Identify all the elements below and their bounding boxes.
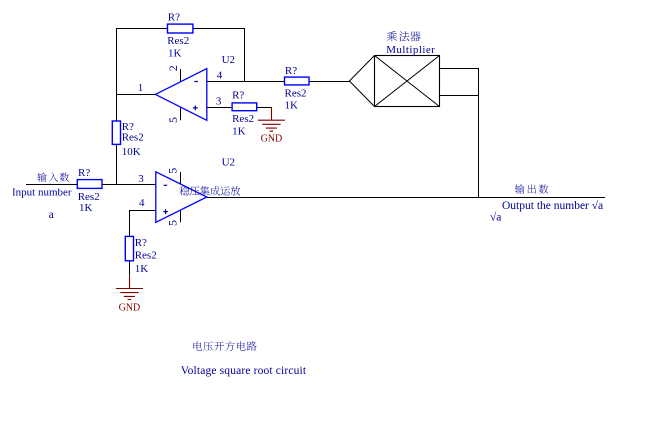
op-amp U2A minus sign bbox=[194, 81, 198, 83]
svg-text:10K: 10K bbox=[122, 146, 141, 158]
ground GND1 bbox=[258, 120, 285, 131]
wire: U2B pin 4 corner bbox=[130, 211, 156, 237]
wire: U2A pin 3 to R_g1 bbox=[207, 107, 232, 109]
resistor R? (Res2 10K) vertical bbox=[112, 121, 120, 144]
wire: multiplier output vertical to output line bbox=[478, 68, 480, 198]
svg-text:Multiplier: Multiplier bbox=[386, 44, 435, 56]
ground GND2 bbox=[116, 289, 143, 300]
label 稳压集成运放 (op-amp description, Chinese) bbox=[180, 186, 241, 196]
resistor R? to GND1 (Res2 1K) bbox=[232, 103, 257, 111]
wire: GND1 stem bbox=[271, 107, 273, 121]
wire: multiplier top output bbox=[439, 68, 479, 70]
svg-text:R?: R? bbox=[285, 65, 297, 77]
svg-text:GND: GND bbox=[119, 302, 141, 313]
svg-text:1K: 1K bbox=[232, 126, 246, 138]
svg-text:3: 3 bbox=[138, 173, 144, 185]
wire: left vertical net (node a / U2A output) upper part bbox=[116, 28, 118, 121]
wire: R_in to U2B pin 3 bbox=[102, 184, 156, 186]
wire: feedback top right segment bbox=[193, 28, 245, 30]
wire: R_mult to multiplier input bbox=[309, 81, 349, 83]
wire: R_g2 bottom to GND2 bbox=[129, 261, 131, 276]
svg-text:5: 5 bbox=[166, 117, 180, 123]
label 输入数 (input label, Chinese) bbox=[37, 173, 69, 182]
wire: feedback top left segment bbox=[116, 28, 168, 30]
resistor R? to GND2 (Res2 1K) vertical bbox=[125, 236, 133, 260]
wire: input line to R_in bbox=[26, 184, 77, 186]
svg-text:4: 4 bbox=[139, 197, 145, 209]
label 乘法器 (multiplier, Chinese) bbox=[387, 31, 421, 41]
resistor R? input (Res2 1K) bbox=[77, 180, 102, 189]
svg-text:a: a bbox=[49, 209, 54, 221]
svg-text:4: 4 bbox=[217, 69, 223, 81]
svg-text:Output the number √a: Output the number √a bbox=[502, 199, 603, 212]
wire: U2A pin 4 to R_mult bbox=[207, 81, 285, 83]
svg-text:Res2: Res2 bbox=[135, 249, 157, 261]
multiplier body rectangle bbox=[375, 56, 440, 107]
svg-text:5: 5 bbox=[165, 220, 179, 226]
resistor R? feedback (Res2 1K) bbox=[168, 24, 193, 33]
svg-text:√a: √a bbox=[490, 211, 501, 224]
pin stub: U2B pin 5 bottom bbox=[180, 210, 182, 222]
svg-text:GND: GND bbox=[261, 134, 283, 145]
pin stub: U2B pin 5 top bbox=[180, 172, 182, 184]
wire: output line bbox=[207, 197, 605, 199]
svg-text:1: 1 bbox=[138, 82, 144, 94]
svg-text:R?: R? bbox=[232, 90, 244, 102]
wire: multiplier bottom output bbox=[439, 95, 479, 97]
svg-text:Res2: Res2 bbox=[122, 131, 144, 143]
svg-text:Res2: Res2 bbox=[78, 191, 100, 203]
svg-text:R?: R? bbox=[78, 167, 90, 179]
multiplier X diagonals bbox=[375, 56, 440, 107]
svg-text:1K: 1K bbox=[79, 202, 93, 214]
svg-text:U2: U2 bbox=[222, 54, 235, 66]
multiplier input triangle bbox=[349, 56, 374, 107]
label 输出数 (output label, Chinese) bbox=[515, 184, 548, 193]
op-amp U2B minus sign bbox=[164, 184, 168, 186]
svg-text:Res2: Res2 bbox=[167, 35, 189, 47]
op-amp U2A plus sign bbox=[193, 106, 198, 111]
wire: GND2 stem bbox=[129, 275, 131, 289]
svg-text:Voltage square root circuit: Voltage square root circuit bbox=[181, 365, 307, 377]
wire: left vertical net lower part bbox=[116, 144, 118, 185]
svg-text:R?: R? bbox=[135, 237, 147, 249]
svg-text:5: 5 bbox=[165, 168, 179, 174]
pin stub: U2A pin 2 bbox=[180, 69, 182, 82]
svg-text:R?: R? bbox=[168, 11, 180, 23]
pin stub: U2A pin 5 bbox=[180, 107, 182, 120]
op-amp U2A (left-pointing triangle) bbox=[155, 69, 206, 121]
wire: R_g1 to GND corner bbox=[257, 107, 272, 109]
svg-text:1K: 1K bbox=[168, 48, 182, 60]
title 电压开方电路 (voltage square root circuit, Chinese) bbox=[193, 341, 256, 351]
svg-text:2: 2 bbox=[166, 65, 180, 71]
resistor R? to multiplier (Res2 1K) bbox=[285, 77, 310, 85]
svg-text:U2: U2 bbox=[222, 157, 235, 169]
svg-text:1K: 1K bbox=[285, 99, 299, 111]
svg-text:1K: 1K bbox=[135, 263, 149, 275]
svg-text:Input number: Input number bbox=[12, 186, 72, 198]
op-amp U2B plus sign bbox=[163, 209, 168, 214]
wire: feedback right vertical bbox=[244, 28, 246, 82]
op-amp U2B (right-pointing triangle) bbox=[156, 172, 207, 223]
wire: U2A pin 1 output bbox=[116, 94, 155, 96]
svg-text:Res2: Res2 bbox=[232, 113, 254, 125]
svg-text:3: 3 bbox=[216, 95, 222, 107]
svg-text:Res2: Res2 bbox=[285, 88, 307, 100]
